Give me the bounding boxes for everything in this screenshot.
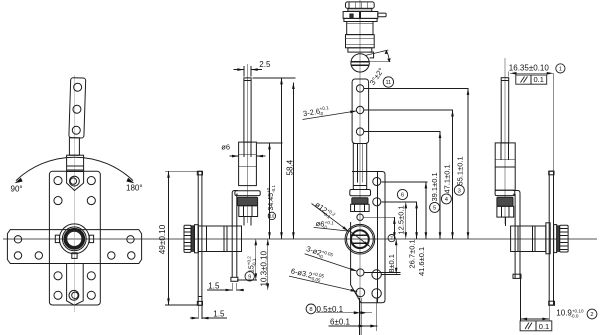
view3 body lower [346,35,375,48]
view3 small hole below nut [357,214,363,220]
view3 plate holes lower [372,270,381,279]
view4 cylinder rings [546,223,550,254]
view4 cylinder body [511,226,546,252]
svg-text:1: 1 [559,66,562,72]
view3 vertical centerline [359,0,361,335]
svg-text:55.1±0.1: 55.1±0.1 [456,156,465,185]
view1 boss bottom tab [72,253,77,259]
view1 lever shaft [69,138,79,155]
view2 rod [244,78,251,142]
svg-text:58.4: 58.4 [285,159,294,175]
view3 dim 55.1 (3) [467,88,469,238]
view1 boss side tabs [55,235,59,242]
svg-text:41.6±0.1: 41.6±0.1 [417,247,426,276]
view1 arm holes [14,236,21,243]
svg-text:2: 2 [590,312,593,318]
circled 11 [383,77,393,87]
view3 label dia12 [312,204,349,232]
svg-text:180°: 180° [126,184,143,193]
view3 flange [343,12,378,19]
view3 dim 47.1 (4) [452,110,454,239]
view4 mounting plate strip [549,171,553,305]
view3 body upper [347,22,373,35]
view3 collar [350,190,371,196]
view2 L-bracket [232,191,238,278]
view2 hex nut [239,206,258,217]
view2 dim 15 (9) [237,279,257,281]
view3 angle indicator [365,50,388,56]
svg-text:1.5: 1.5 [208,281,220,290]
view2 neck below nut [243,217,245,226]
view2 knurled ring dark [237,197,257,205]
view2 knurl shadow band [191,226,194,252]
view3 label 3-2.6 [303,111,357,120]
view2 cylinder knurl cap [184,225,191,252]
svg-text:3: 3 [458,188,461,194]
svg-text:10.3±0.10: 10.3±0.10 [260,250,269,286]
view1 vertical centerline [73,75,75,312]
view3 lever bar [352,79,369,144]
svg-text:8: 8 [309,307,312,313]
view3 dim 26.7 [416,202,418,239]
view2 cylinder body [198,226,241,252]
view1 plate [49,171,100,305]
view4 knurl shadow band [557,226,560,252]
view2 dim 2.5 [243,66,245,76]
view3 dim 39.1 (5) [439,132,441,239]
view4 parallelism frame bottom [520,321,552,331]
view4 parallelism frame top [516,75,547,84]
view2 washer flange [235,191,260,196]
view2 dim 1.5 lower [197,306,199,319]
view4 hex nut [497,206,514,217]
svg-text:16.35±0.10: 16.35±0.10 [509,64,550,73]
view3 extension lines right [364,87,469,89]
svg-text:90°: 90° [11,185,23,194]
svg-text:ø6: ø6 [221,143,230,152]
view3 hex nut [351,204,370,211]
view1 plate holes [54,177,62,185]
svg-text:12.5±0.1: 12.5±0.1 [397,205,406,234]
view2 horn plate strip [198,171,202,305]
view1 lever arm [69,78,86,138]
view3 bracket plate [351,172,385,303]
view1 lever tab inside plate [67,172,84,191]
view2 dim 58.4 [253,77,296,79]
view3 label 3-dia2 [305,254,358,272]
view3 ball joint [351,54,369,72]
svg-text:0.1: 0.1 [533,75,543,84]
svg-text:39.1±0.1: 39.1±0.1 [430,172,439,201]
svg-text:6: 6 [401,193,404,199]
svg-text:26.7±0.1: 26.7±0.1 [408,239,417,268]
view3 lever holes [356,85,363,92]
view4 knurl cap [560,225,568,252]
view3 step [348,48,372,52]
svg-text:10: 10 [269,213,274,218]
view3 plate holes upper [373,177,381,185]
view4 neck below nut [505,217,507,226]
view4 L-bracket [513,191,520,279]
view4 knurled ring dark [497,197,513,206]
svg-text:8±0.1: 8±0.1 [387,254,396,273]
view3 dim 0.5 (8) [306,304,316,314]
view1 lever holes [74,83,82,91]
view3 dim 12.5 (6) [405,202,407,239]
view1 lever hub section [67,155,84,171]
view4 rod [501,78,509,143]
svg-text:0.1: 0.1 [539,322,549,331]
view2 dim 1.5 upper [231,283,233,291]
view3 flange base [344,18,377,21]
view2 dim 34.45 [257,142,283,144]
view3 top knurled cap [346,2,375,8]
svg-text:9: 9 [248,274,251,280]
svg-text:49±0.10: 49±0.10 [158,224,167,254]
svg-text:2.5: 2.5 [259,60,271,69]
view2 extra dim line [292,83,294,239]
view3 label dia6 [314,227,370,246]
svg-text:6±0.1: 6±0.1 [330,317,351,326]
svg-text:47.1±0.1: 47.1±0.1 [443,164,452,193]
view3 label 6-dia3.2 [289,276,357,292]
view2 vertical centerline [247,64,249,223]
view3 shaft [353,144,366,190]
main horizontal centerline [3,238,597,240]
view4 bushing [495,143,515,190]
view3 plate fold line [376,172,378,303]
view3 dim line 8 lower (7) [395,239,397,274]
view1 lower lever tab [67,264,84,306]
view1 swing arc [16,157,133,180]
svg-text:5: 5 [433,205,436,211]
view3 boss circles [345,224,375,254]
view4 vertical centerline [504,58,506,224]
view3 neck washer [348,8,372,11]
view2 dim 49 [165,170,198,172]
view2 cylinder ring [195,225,199,253]
svg-text:34.45+0-0.1: 34.45+0-0.1 [266,185,276,211]
svg-text:11: 11 [385,80,391,86]
view1 boss [59,224,89,254]
view3 yoke step edge [369,52,373,58]
view1 cross arm [7,230,141,264]
view3 dim 41.6 [425,182,427,239]
view2 dim 10.3 [267,239,269,290]
view3 slot lines below plate [358,298,360,335]
view2 bushing [239,142,257,186]
view3 dim line 8 upper [393,217,395,238]
view3 knurled ring dark [352,198,368,204]
svg-text:1.5: 1.5 [213,309,225,318]
view4 washer flange [495,190,515,195]
